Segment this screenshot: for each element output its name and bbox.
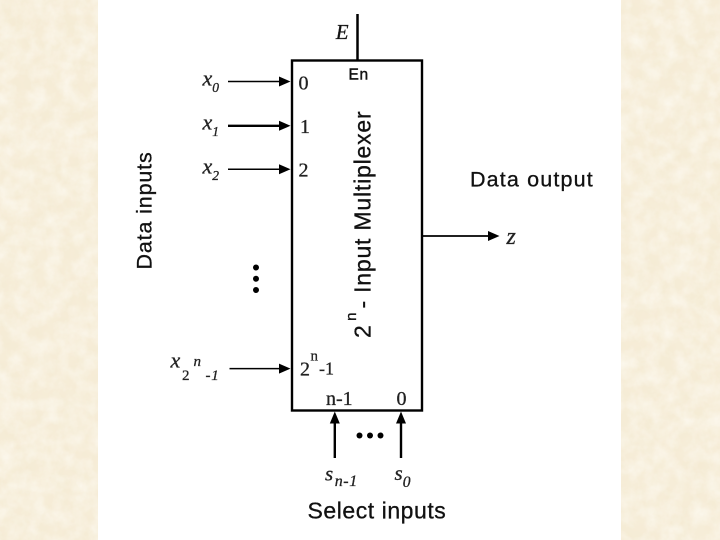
wire select s0 bbox=[400, 421, 402, 458]
svg-text:Data output: Data output bbox=[470, 168, 594, 192]
arrowhead z output bbox=[488, 231, 500, 241]
svg-text:2: 2 bbox=[182, 368, 190, 384]
arrowhead x0 bbox=[279, 77, 291, 87]
wire x2 input bbox=[228, 168, 282, 170]
svg-text:z: z bbox=[506, 224, 517, 250]
wire E enable input bbox=[356, 14, 359, 60]
node label x 2^n-1 bbox=[170, 348, 220, 385]
svg-text:2: 2 bbox=[299, 160, 309, 182]
wire x0 input bbox=[228, 81, 282, 83]
svg-text:x1: x1 bbox=[202, 110, 220, 140]
ellipsis select inputs bbox=[357, 433, 384, 439]
arrowhead s(n-1) bbox=[330, 412, 340, 424]
arrowhead x2 bbox=[279, 164, 291, 174]
white diagram panel bbox=[98, 0, 621, 540]
pin 2^n-1 bbox=[300, 349, 334, 381]
arrowhead x(2^n-1) bbox=[279, 364, 291, 374]
svg-text:Select inputs: Select inputs bbox=[308, 498, 447, 524]
svg-text:n: n bbox=[194, 354, 202, 370]
svg-text:Data inputs: Data inputs bbox=[133, 151, 157, 269]
wire z output bbox=[423, 235, 490, 237]
svg-text:-1: -1 bbox=[319, 359, 334, 379]
wire select s(n-1) bbox=[334, 421, 336, 458]
svg-text:En: En bbox=[349, 67, 369, 84]
svg-text:0: 0 bbox=[397, 388, 407, 410]
wire x1 input bbox=[228, 125, 282, 127]
svg-text:0: 0 bbox=[299, 73, 309, 95]
svg-text:sn-1: sn-1 bbox=[325, 462, 358, 491]
svg-text:x: x bbox=[170, 348, 181, 373]
svg-text:n-1: n-1 bbox=[326, 388, 353, 410]
arrowhead s0 bbox=[396, 412, 406, 424]
svg-text:n: n bbox=[311, 349, 319, 365]
ellipsis data inputs bbox=[253, 265, 259, 294]
svg-text:1: 1 bbox=[300, 116, 310, 138]
svg-text:E: E bbox=[335, 20, 349, 44]
multiplexer box U1 bbox=[292, 61, 422, 411]
svg-text:x2: x2 bbox=[202, 154, 220, 184]
svg-text:2: 2 bbox=[300, 359, 310, 381]
svg-text:x0: x0 bbox=[202, 66, 220, 96]
wire x(2^n-1) input bbox=[230, 368, 283, 370]
svg-text:s0: s0 bbox=[395, 461, 411, 491]
arrowhead x1 bbox=[279, 121, 291, 131]
svg-text:-1: -1 bbox=[206, 368, 220, 384]
